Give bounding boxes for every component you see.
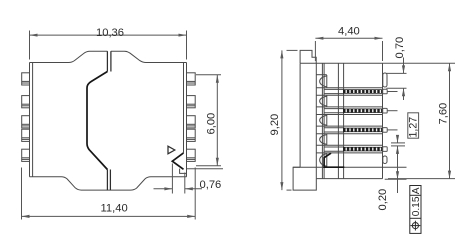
feature control frame: position 0.15 A	[410, 186, 421, 234]
top protrusion right flat + slant + top edge right	[111, 51, 187, 62]
interior wall line B	[321, 63, 323, 178]
svg-text:0,76: 0,76	[200, 179, 222, 191]
right-side pin 2	[187, 96, 196, 108]
side view left edge	[299, 63, 301, 167]
side view bottom edge	[316, 178, 382, 180]
svg-text:0,70: 0,70	[394, 37, 406, 59]
pin 4 end cap	[383, 147, 388, 152]
bottom step line + extension	[293, 166, 406, 168]
dimension 0.76 notch offset	[171, 164, 173, 194]
top slot left line	[106, 51, 108, 71]
step below chevron	[180, 169, 187, 174]
pin 2 centerline extension	[387, 110, 397, 112]
interior wall line E	[343, 63, 345, 178]
svg-text:11,40: 11,40	[101, 202, 128, 214]
side view top edge	[300, 62, 382, 64]
contact cavity block 5	[326, 153, 328, 167]
pin 1 centerline extension	[387, 91, 397, 93]
left-side pin 4	[22, 129, 30, 141]
right-side pin 3	[187, 116, 196, 128]
left outer wall	[29, 63, 31, 177]
bottom edge + protrusion	[30, 177, 187, 190]
svg-text:1,27: 1,27	[407, 117, 419, 138]
pin 2 end cap	[383, 108, 388, 113]
position tolerance symbol	[411, 221, 421, 231]
bottom slot left line	[106, 170, 108, 191]
interior wall line D	[337, 63, 339, 178]
svg-text:7,60: 7,60	[437, 103, 449, 125]
side view right face	[382, 63, 384, 178]
pin 4 tail	[316, 144, 382, 146]
pin 3 knurled section	[343, 128, 383, 132]
svg-text:4,40: 4,40	[338, 26, 360, 38]
dimension 7.60 body height	[388, 178, 455, 180]
svg-text:10,36: 10,36	[96, 27, 124, 39]
dimension 0.70	[383, 62, 456, 64]
right-side pin 1	[187, 73, 196, 85]
pin 4 knurled section	[343, 147, 383, 151]
left inner wall	[32, 63, 34, 177]
left-side pin 2	[22, 96, 30, 108]
right outer wall	[186, 63, 188, 177]
interior wall line C	[323, 63, 325, 178]
svg-text:0.15: 0.15	[411, 196, 422, 216]
1.27/0.20 leader line with arrows	[397, 138, 399, 143]
dimension 9.20 overall height	[287, 49, 298, 51]
top edge left + protrusion left slant	[30, 51, 108, 62]
top-right latch bump	[383, 73, 387, 87]
right-side pin 4	[187, 129, 196, 141]
contact cavity block 1	[326, 75, 328, 88]
top slot right line	[110, 51, 112, 71]
dark contour bottom of side view	[324, 153, 344, 167]
pin 3 end cap	[383, 128, 388, 133]
svg-text:A: A	[411, 187, 422, 194]
dimension 10.36 top width	[29, 31, 31, 60]
right-side pin 5	[187, 149, 196, 161]
right wall chevron notch	[172, 153, 183, 169]
contact cavity block 4	[326, 134, 328, 146]
interior wall line A	[315, 63, 317, 178]
basic dimension 1.27 pitch box	[408, 113, 419, 138]
pin 1 end cap	[383, 89, 388, 94]
svg-text:6,00: 6,00	[206, 113, 218, 135]
dimension 6.00 pin field height	[196, 74, 221, 76]
pin 2 knurled section	[343, 109, 383, 113]
cavity block top edge	[316, 74, 327, 76]
dimension 11.40 bottom width	[21, 168, 23, 220]
svg-text:9,20: 9,20	[269, 114, 281, 136]
pin 1 knurled section	[343, 89, 383, 93]
left-side pin 3	[22, 116, 30, 128]
internal keying contour (dark)	[87, 72, 107, 170]
contact cavity block 2	[326, 95, 328, 107]
mounting foot	[293, 167, 316, 190]
bottom-right latch bump	[383, 156, 387, 164]
contact cavity block 3	[326, 115, 328, 127]
dimension 4.40 body depth	[314, 41, 316, 61]
pin 2 tail	[316, 106, 382, 108]
pin 1 tail	[316, 87, 382, 89]
pin 3 centerline extension	[387, 129, 397, 131]
left-side pin 1	[22, 73, 30, 85]
svg-text:0,20: 0,20	[377, 189, 389, 211]
pin 3 tail	[316, 125, 382, 127]
right inner wall upper	[183, 63, 185, 153]
triangle marker	[168, 146, 175, 154]
side view top-left block	[300, 50, 316, 63]
left-side pin 5	[22, 149, 30, 161]
bottom slot right line	[109, 170, 111, 191]
